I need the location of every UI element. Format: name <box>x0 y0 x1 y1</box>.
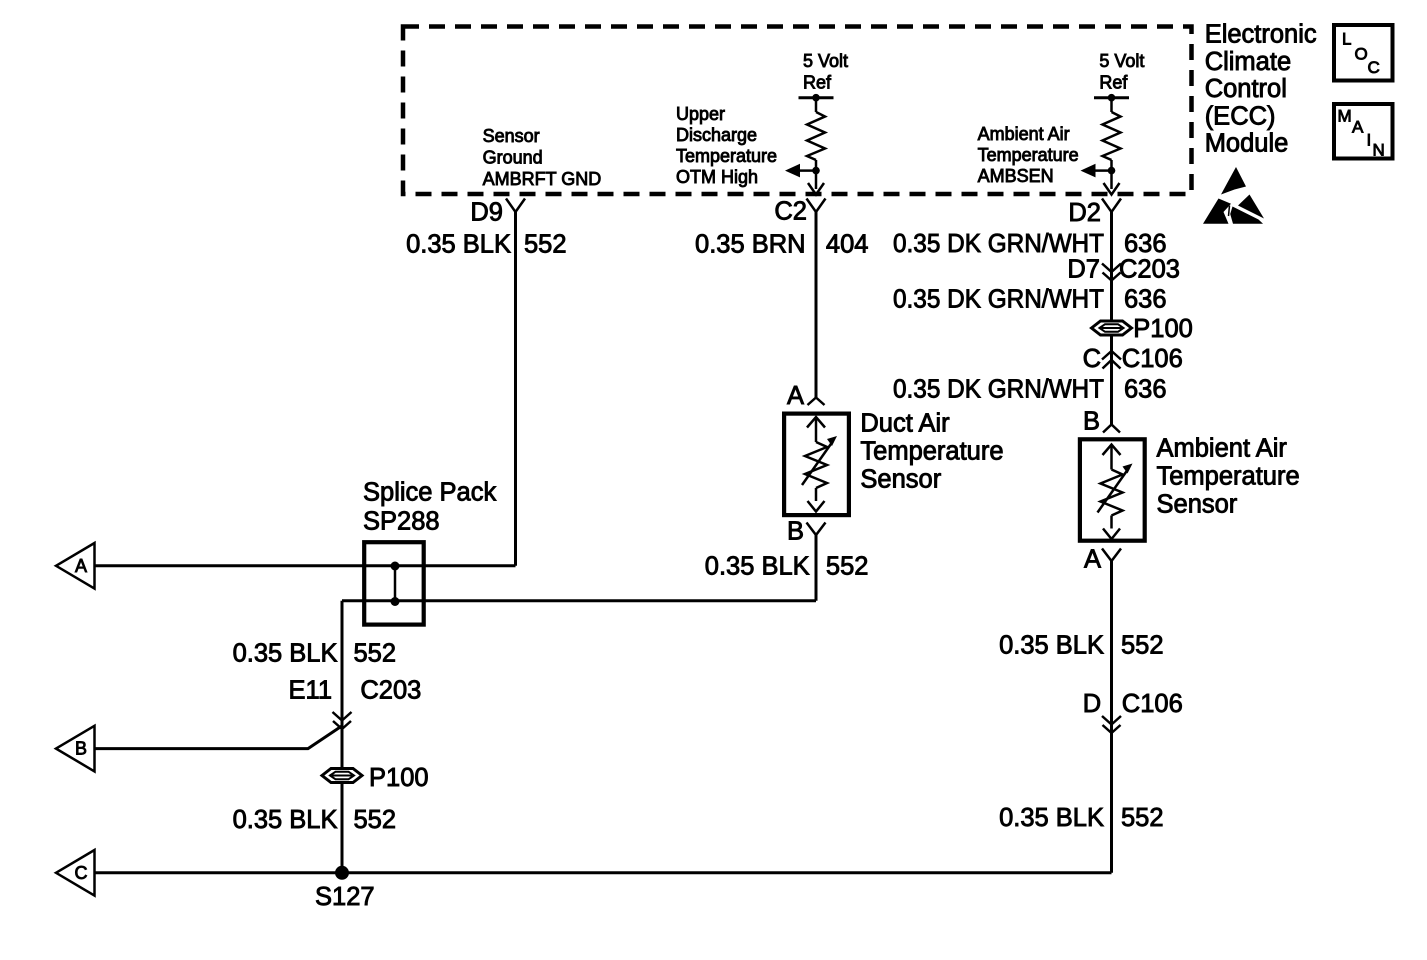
svg-text:Control: Control <box>1205 75 1287 103</box>
svg-text:A: A <box>1084 546 1101 574</box>
svg-text:A: A <box>75 556 87 576</box>
svg-text:552: 552 <box>354 806 397 834</box>
svg-text:AMBSEN: AMBSEN <box>978 166 1054 186</box>
svg-text:Temperature: Temperature <box>1157 463 1300 491</box>
svg-text:C: C <box>1083 345 1101 373</box>
svg-text:Electronic: Electronic <box>1205 21 1317 49</box>
svg-text:552: 552 <box>826 553 869 581</box>
svg-text:5 Volt: 5 Volt <box>1099 51 1144 71</box>
svg-text:L: L <box>1342 30 1351 49</box>
svg-text:C106: C106 <box>1122 690 1183 718</box>
svg-text:C: C <box>75 863 88 883</box>
svg-text:0.35 BLK: 0.35 BLK <box>705 553 810 581</box>
svg-text:M: M <box>1338 107 1352 126</box>
svg-text:Climate: Climate <box>1205 48 1291 76</box>
svg-text:(ECC): (ECC) <box>1205 102 1276 130</box>
svg-text:Ground: Ground <box>483 148 543 168</box>
svg-text:Module: Module <box>1205 130 1289 158</box>
svg-text:S127: S127 <box>315 883 375 911</box>
svg-text:D2: D2 <box>1068 199 1101 227</box>
svg-text:Sensor: Sensor <box>860 466 941 494</box>
svg-text:Splice Pack: Splice Pack <box>363 479 496 507</box>
svg-text:404: 404 <box>826 230 869 258</box>
svg-text:Ref: Ref <box>803 73 832 93</box>
svg-text:0.35 BLK: 0.35 BLK <box>999 804 1104 832</box>
svg-text:0.35 DK GRN/WHT: 0.35 DK GRN/WHT <box>893 376 1104 404</box>
svg-text:Discharge: Discharge <box>676 125 757 145</box>
svg-text:552: 552 <box>524 231 567 259</box>
svg-text:0.35 BRN: 0.35 BRN <box>695 230 806 258</box>
svg-text:P100: P100 <box>1133 315 1193 343</box>
svg-text:0.35 BLK: 0.35 BLK <box>406 231 511 259</box>
svg-text:C203: C203 <box>360 677 421 705</box>
svg-text:O: O <box>1355 45 1368 64</box>
svg-text:B: B <box>787 518 804 546</box>
svg-text:Duct Air: Duct Air <box>860 410 950 438</box>
svg-text:N: N <box>1373 141 1385 160</box>
svg-text:0.35 BLK: 0.35 BLK <box>999 632 1104 660</box>
svg-text:D: D <box>1083 690 1101 718</box>
svg-text:E11: E11 <box>289 677 332 705</box>
svg-text:D7: D7 <box>1067 256 1100 284</box>
svg-text:B: B <box>75 739 87 759</box>
svg-text:0.35 DK GRN/WHT: 0.35 DK GRN/WHT <box>893 286 1104 314</box>
svg-text:SP288: SP288 <box>363 508 440 536</box>
svg-text:5 Volt: 5 Volt <box>803 51 848 71</box>
svg-text:A: A <box>1352 118 1364 137</box>
svg-text:0.35 DK GRN/WHT: 0.35 DK GRN/WHT <box>893 230 1104 258</box>
svg-text:Temperature: Temperature <box>860 438 1003 466</box>
svg-text:636: 636 <box>1124 286 1167 314</box>
svg-text:552: 552 <box>1121 804 1164 832</box>
svg-text:AMBRFT GND: AMBRFT GND <box>483 169 602 189</box>
svg-text:P100: P100 <box>369 764 429 792</box>
svg-text:Sensor: Sensor <box>1157 491 1238 519</box>
svg-text:0.35 BLK: 0.35 BLK <box>233 806 338 834</box>
svg-text:552: 552 <box>1121 632 1164 660</box>
svg-text:Ambient Air: Ambient Air <box>1157 435 1288 463</box>
svg-text:I: I <box>1367 131 1372 150</box>
svg-text:552: 552 <box>354 640 397 668</box>
svg-text:Sensor: Sensor <box>483 126 540 146</box>
svg-text:Temperature: Temperature <box>978 145 1079 165</box>
svg-text:B: B <box>1083 408 1100 436</box>
svg-text:0.35 BLK: 0.35 BLK <box>233 640 338 668</box>
svg-text:Ambient Air: Ambient Air <box>978 124 1070 144</box>
svg-text:636: 636 <box>1124 230 1167 258</box>
svg-text:C2: C2 <box>774 198 807 226</box>
svg-text:OTM High: OTM High <box>676 167 758 187</box>
svg-text:A: A <box>787 382 804 410</box>
svg-text:Ref: Ref <box>1099 73 1128 93</box>
svg-text:Upper: Upper <box>676 104 725 124</box>
svg-text:D9: D9 <box>470 199 503 227</box>
svg-text:C106: C106 <box>1122 345 1183 373</box>
svg-text:C: C <box>1368 58 1380 77</box>
svg-text:C203: C203 <box>1119 256 1180 284</box>
svg-text:636: 636 <box>1124 376 1167 404</box>
svg-text:Temperature: Temperature <box>676 146 777 166</box>
